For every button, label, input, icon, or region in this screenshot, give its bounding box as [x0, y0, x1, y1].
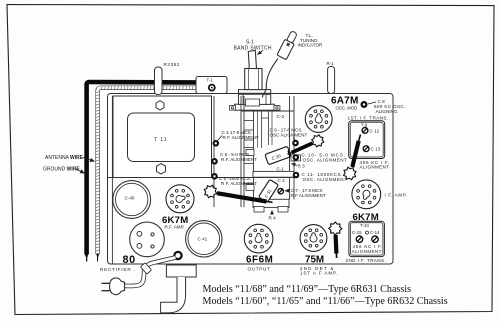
svg-text:R F ALIGNMENT: R F ALIGNMENT: [291, 193, 326, 198]
svg-text:C 41: C 41: [198, 237, 208, 242]
svg-text:C-15: C-15: [352, 230, 362, 235]
chassis fold line: [108, 177, 295, 179]
svg-text:R F. ALIGNMENT: R F. ALIGNMENT: [223, 135, 259, 140]
trimmer C-5: [211, 158, 218, 165]
tube socket 75M: [300, 225, 327, 252]
capacitor C-41: [186, 221, 222, 257]
svg-text:Models “11/68” and “11/69”—Typ: Models “11/68” and “11/69”—Type 6R631 Ch…: [203, 284, 412, 295]
label C-9: [270, 128, 308, 141]
svg-text:T 11: T 11: [154, 137, 168, 143]
svg-text:T-10: T-10: [360, 223, 369, 228]
label 456 kc IF alignment 2: [352, 244, 383, 254]
svg-text:I F. AMP.: I F. AMP.: [385, 193, 408, 198]
antenna wire: [85, 82, 198, 262]
svg-text:ALIGNING: ALIGNING: [376, 109, 398, 114]
capacitor C-40: [113, 181, 151, 219]
trimmer C-11: [293, 172, 300, 179]
tube 75M label: [300, 254, 339, 275]
svg-text:T-1: T-1: [207, 78, 214, 83]
svg-text:ANTENNA WIRE: ANTENNA WIRE: [45, 155, 84, 161]
trimmer C-30: [265, 146, 291, 165]
label C-6: [219, 176, 257, 186]
svg-text:ALIGNMENT: ALIGNMENT: [352, 249, 382, 254]
screwdriver at T-9: [344, 135, 361, 180]
svg-text:1ST. I F. TRANS.: 1ST. I F. TRANS.: [348, 116, 389, 121]
screwdriver at T-10: [329, 222, 342, 258]
tube socket 6K7M RF: [166, 185, 194, 213]
svg-text:OSC. ALIGNMENT: OSC. ALIGNMENT: [303, 158, 348, 163]
ground wire: [96, 88, 207, 262]
label C-4: [218, 130, 259, 141]
svg-text:R.F. ALIGNMENT: R.F. ALIGNMENT: [221, 157, 257, 162]
mounting bracket: [161, 265, 197, 313]
trimmer C-14: [372, 236, 378, 242]
label tuning indicator: [298, 33, 324, 48]
trimmer C-9: [292, 140, 299, 147]
svg-text:R.F. AMP.: R.F. AMP.: [165, 225, 185, 230]
trimmer C-15: [356, 236, 362, 242]
trimmer C-7: [278, 189, 283, 194]
IF transformer T-9: [349, 121, 385, 159]
svg-text:INDICATOR: INDICATOR: [298, 43, 324, 48]
svg-text:C-14: C-14: [370, 230, 380, 235]
svg-text:C-1: C-1: [277, 167, 285, 172]
svg-text:C-3: C-3: [277, 114, 285, 119]
chassis outline: [108, 94, 394, 265]
svg-text:OSC. MOD.: OSC. MOD.: [336, 106, 359, 111]
trimmer C-4: [213, 140, 220, 147]
trimmer C-6: [211, 173, 218, 180]
svg-text:80: 80: [123, 254, 136, 266]
tube socket 6K7M IF: [352, 180, 381, 209]
tube 6F6M label: [246, 254, 273, 271]
screwdriver at C-31: [204, 185, 272, 202]
trimmer C-12: [362, 127, 368, 133]
svg-text:R F. ALIGNMENT: R F. ALIGNMENT: [221, 181, 257, 186]
tube 80 label: [100, 254, 136, 272]
svg-text:BAND SWITCH: BAND SWITCH: [234, 46, 272, 52]
label C-8: [368, 99, 406, 114]
svg-text:T-9: T-9: [361, 122, 368, 127]
resistor label R-3: [292, 164, 306, 169]
svg-text:C 12: C 12: [370, 128, 380, 133]
svg-text:R 4: R 4: [269, 216, 277, 221]
svg-text:C 13: C 13: [371, 147, 381, 152]
svg-text:R 3: R 3: [298, 164, 306, 169]
band switch S-1: [230, 50, 280, 110]
hex nut bottom: [157, 164, 166, 174]
screwdriver at C-10: [288, 135, 324, 157]
IF transformer T-10: [349, 221, 385, 256]
tube 6K7M RF label: [162, 215, 188, 229]
svg-text:6F6M: 6F6M: [246, 254, 273, 265]
label band switch: [234, 40, 272, 55]
label 456 kc IF alignment: [360, 160, 390, 170]
plug: [102, 278, 125, 295]
svg-text:1ST A F AMP.: 1ST A F AMP.: [300, 271, 339, 276]
svg-text:Models “11/60”, “11/65” and “1: Models “11/60”, “11/65” and “11/66”—Type…: [203, 296, 448, 307]
svg-text:RECTIFIER .: RECTIFIER .: [100, 267, 136, 272]
grommet: [174, 252, 181, 259]
svg-text:R-1: R-1: [327, 61, 335, 66]
svg-text:OSC ALIGNMENT: OSC ALIGNMENT: [270, 133, 308, 138]
shield box T-11: [113, 96, 214, 207]
svg-text:OSC. ALIGNMENT: OSC. ALIGNMENT: [303, 177, 348, 182]
label C-10: [302, 153, 348, 163]
label C-5: [220, 152, 257, 162]
svg-text:C-40: C-40: [125, 196, 135, 201]
resistor R-1: [327, 61, 335, 94]
tube socket 80: [130, 222, 165, 257]
power cord: [124, 258, 175, 287]
label C-7: [285, 188, 326, 198]
svg-text:OUTPUT: OUTPUT: [248, 266, 271, 271]
hex nut top: [156, 101, 164, 110]
trimmer C-13: [363, 146, 369, 152]
svg-text:C 2: C 2: [278, 178, 286, 183]
svg-text:75M: 75M: [305, 254, 324, 265]
svg-text:GROUND WIRE: GROUND WIRE: [43, 167, 80, 173]
tube socket 6F6M: [244, 224, 273, 253]
svg-text:ALIGNMENT: ALIGNMENT: [360, 165, 390, 170]
transformer T-1: [196, 77, 227, 94]
tuning indicator lamp T.L.: [277, 30, 299, 60]
trimmer C-8: [361, 101, 368, 108]
svg-text:R2352: R2352: [164, 62, 181, 67]
trimmer C-31: [258, 179, 278, 202]
svg-text:2ND I F. TRANS.: 2ND I F. TRANS.: [346, 258, 387, 263]
tube socket 6A7M: [305, 106, 332, 133]
label antenna wire: [45, 155, 95, 161]
tuning gang frame: [241, 96, 294, 212]
resistor label R-4: [269, 211, 277, 221]
label C-11: [302, 172, 348, 182]
label ground wire: [43, 167, 85, 174]
resistor R-2,3,5,2: [155, 62, 181, 95]
trimmer C-10: [291, 154, 301, 161]
